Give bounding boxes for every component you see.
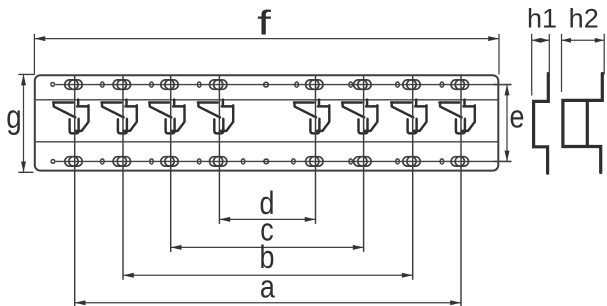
svg-text:e: e — [510, 99, 525, 135]
svg-text:g: g — [6, 99, 21, 136]
svg-text:f: f — [257, 4, 271, 42]
svg-text:a: a — [260, 269, 275, 305]
svg-text:h1: h1 — [527, 4, 557, 34]
svg-text:h2: h2 — [569, 4, 599, 34]
